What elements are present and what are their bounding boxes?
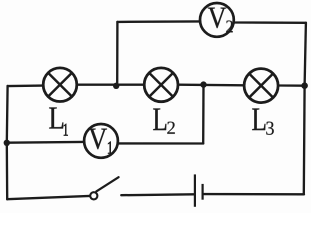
junction node between L1 and L2 [113, 83, 119, 89]
wire: top right segment (V2 to right corner) [234, 21, 306, 24]
voltmeter V1 circle [84, 124, 118, 158]
wire: V1 branch left segment [7, 141, 84, 144]
lamp L1 [43, 68, 77, 102]
wire: top loop vertical riser [116, 22, 119, 85]
label L3 [252, 108, 274, 134]
wire: L3 to right rail segment [279, 84, 305, 87]
wire: L1 to L2 segment [78, 84, 144, 86]
label L1 [49, 107, 68, 135]
wire: V1 branch vertical riser to junction [202, 85, 205, 144]
wire: lamp row far-left segment [8, 84, 44, 87]
junction node left rail (V1 tap) [4, 140, 10, 146]
switch S (open) [90, 177, 118, 199]
label V2 inside voltmeter [208, 8, 233, 33]
wire: top left segment (riser to V2) [117, 20, 200, 23]
voltmeter V2 circle [200, 3, 234, 37]
wire: L2 to L3 segment [179, 84, 244, 87]
wire: V1 branch right segment [119, 142, 203, 144]
wire: left vertical (left rail) [6, 86, 9, 199]
wire: bottom left segment (left rail to switch) [7, 196, 90, 199]
label L2 [153, 108, 175, 133]
wire: right vertical rail [304, 23, 306, 195]
wire: bottom middle segment (switch to battery) [121, 193, 193, 196]
lamp L3 [244, 69, 278, 103]
wire: bottom right segment (battery to right corner) [204, 193, 304, 196]
label V1 inside voltmeter [89, 129, 113, 154]
lamp L2 [144, 68, 178, 102]
junction node right rail [301, 82, 308, 89]
junction node between L2 and L3 (V1 tap) [200, 81, 206, 87]
battery cell [195, 174, 203, 206]
